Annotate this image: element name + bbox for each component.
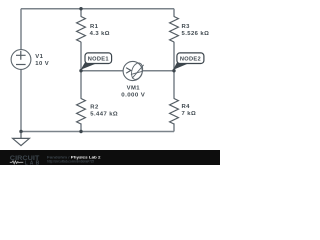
svg-text:0.000 V: 0.000 V — [121, 93, 145, 99]
resistor R1 — [77, 17, 86, 43]
resistor R2 — [77, 99, 86, 125]
svg-text:R3: R3 — [182, 24, 191, 30]
voltmeter VM1 — [123, 61, 144, 80]
node label NODE2 balloon — [173, 53, 204, 70]
voltage source V1 — [11, 50, 31, 70]
wire: top horizontal rail — [21, 8, 174, 10]
wire: left branch NODE1 to R2 — [80, 71, 82, 99]
junction dot: NODE1 — [79, 69, 82, 72]
junction dot: NODE2 — [172, 69, 175, 72]
wire: left vertical, V1 to bottom rail — [20, 69, 22, 131]
wire: bottom horizontal rail — [21, 131, 174, 133]
wire: right branch top stub to R3 — [173, 9, 175, 17]
junction dot: top rail / R1 — [79, 7, 82, 10]
wire: left branch R1 to NODE1 — [80, 42, 82, 71]
ground — [13, 132, 30, 146]
svg-text:http://circuitlab.com/c6mbb6aF: http://circuitlab.com/c6mbb6aF725 — [47, 160, 94, 164]
svg-text:5.447 kΩ: 5.447 kΩ — [90, 111, 118, 117]
wire: right branch NODE2 to R4 — [173, 71, 175, 99]
svg-text:NODE2: NODE2 — [180, 56, 201, 62]
svg-text:R2: R2 — [90, 104, 99, 110]
svg-text:10 V: 10 V — [35, 61, 49, 67]
svg-text:LAB: LAB — [25, 160, 40, 165]
svg-text:R4: R4 — [182, 104, 191, 110]
footer bar — [0, 150, 220, 165]
svg-text:7 kΩ: 7 kΩ — [182, 111, 197, 117]
svg-text:NODE1: NODE1 — [88, 56, 109, 62]
wire: left vertical, top corner to V1 — [20, 9, 22, 50]
wire: left branch top stub to R1 — [80, 9, 82, 17]
junction dot: bottom rail / R2 — [79, 130, 82, 133]
svg-text:R1: R1 — [90, 24, 99, 30]
svg-text:V1: V1 — [35, 54, 43, 60]
junction dot: bottom rail / ground — [19, 130, 22, 133]
resistor R3 — [170, 17, 179, 43]
wire: right branch R4 to bottom rail — [173, 123, 175, 131]
svg-text:VM1: VM1 — [127, 86, 141, 92]
wire: left branch R2 to bottom rail — [80, 123, 82, 131]
resistor R4 — [170, 99, 179, 125]
wire: middle horizontal NODE1-VM1-NODE2 — [81, 70, 174, 72]
svg-text:4.3 kΩ: 4.3 kΩ — [90, 31, 110, 37]
node label NODE1 balloon — [81, 53, 112, 70]
wire: right branch R3 to NODE2 — [173, 42, 175, 71]
svg-text:5.526 kΩ: 5.526 kΩ — [182, 31, 210, 37]
